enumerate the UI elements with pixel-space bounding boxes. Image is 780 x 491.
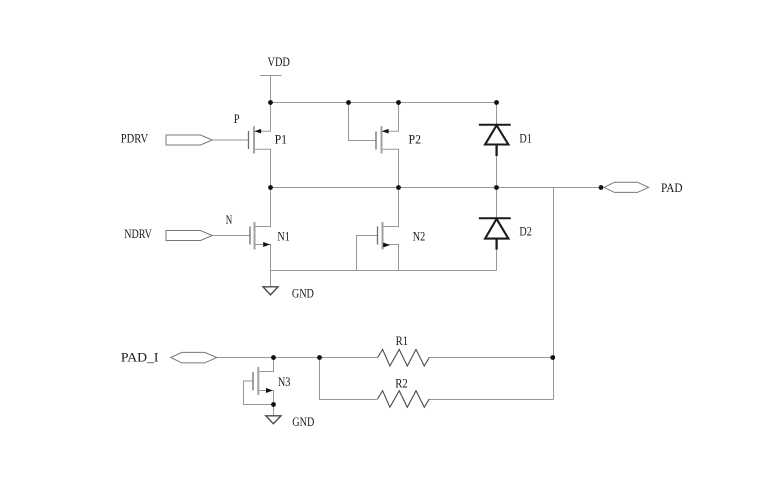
svg-text:R1: R1 — [396, 334, 409, 348]
svg-text:P2: P2 — [409, 133, 422, 147]
svg-text:PAD: PAD — [661, 181, 683, 195]
svg-text:D2: D2 — [519, 224, 532, 238]
svg-text:GND: GND — [292, 415, 314, 429]
svg-text:R2: R2 — [395, 377, 408, 391]
svg-text:N3: N3 — [278, 375, 291, 389]
svg-text:NDRV: NDRV — [124, 227, 152, 241]
svg-text:GND: GND — [292, 287, 314, 301]
svg-text:VDD: VDD — [268, 55, 290, 69]
svg-text:PAD_I: PAD_I — [121, 351, 159, 365]
svg-text:P1: P1 — [275, 133, 288, 147]
svg-text:N2: N2 — [413, 230, 426, 244]
svg-text:D1: D1 — [519, 132, 532, 146]
svg-text:P: P — [234, 112, 240, 126]
svg-text:N1: N1 — [277, 230, 290, 244]
svg-text:N: N — [226, 213, 233, 227]
svg-text:PDRV: PDRV — [121, 132, 148, 146]
